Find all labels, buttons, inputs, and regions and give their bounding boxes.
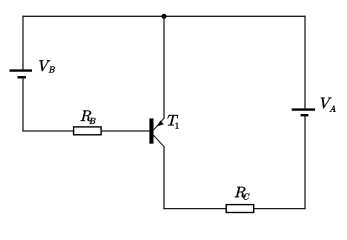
node top junction — [161, 14, 166, 19]
battery V_A long plate — [292, 108, 315, 110]
wire bottom right (RC to right corner) — [254, 208, 306, 210]
transistor T1 emitter arrow — [157, 120, 164, 126]
wire left lower (VB down to corner) — [22, 77, 24, 131]
wire base right (RB to T1 bar) — [101, 130, 149, 132]
resistor R_B — [74, 127, 102, 135]
wire right lower (bottom corner up to VA) — [304, 115, 306, 209]
battery V_B long plate — [10, 69, 33, 71]
resistor R_C — [226, 205, 254, 213]
wire right upper (VA up to top rail) — [304, 16, 306, 110]
label T_1 — [168, 115, 179, 128]
battery V_B short plate — [18, 76, 27, 78]
wire top rail — [22, 15, 305, 17]
label R_B — [81, 111, 96, 124]
wire collector vertical (T1 to bottom rail) — [163, 146, 165, 209]
label V_B — [39, 60, 55, 72]
transistor T1 emitter diagonal — [154, 118, 165, 130]
label R_C — [235, 187, 250, 200]
wire base left (corner to RB) — [22, 130, 73, 132]
label V_A — [321, 98, 336, 112]
transistor T1 base bar — [149, 118, 153, 143]
wire bottom left (corner to RC) — [163, 208, 226, 210]
wire emitter vertical (junction to T1) — [163, 16, 165, 119]
transistor T1 collector diagonal — [154, 135, 165, 146]
wire left upper (top rail to VB) — [22, 16, 24, 71]
battery V_A short plate — [301, 114, 309, 116]
